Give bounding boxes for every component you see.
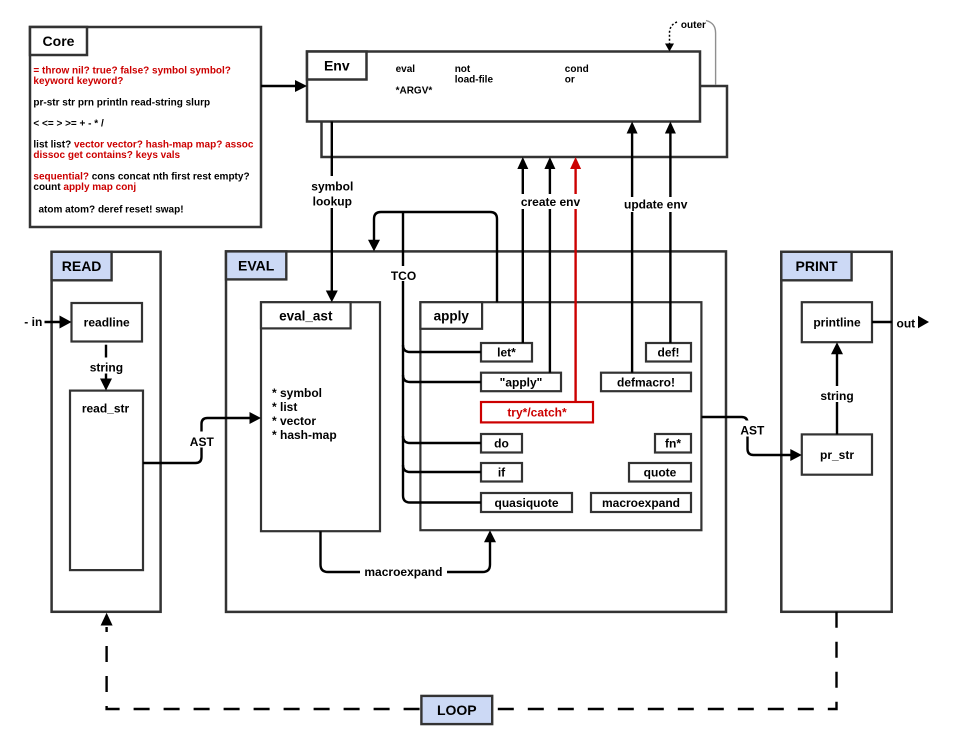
svg-text:quasiquote: quasiquote [494,496,558,510]
svg-text:symbol: symbol [311,180,353,194]
svg-text:sequential? cons concat nth fi: sequential? cons concat nth first rest e… [33,171,249,182]
svg-text:outer: outer [681,20,706,31]
svg-text:LOOP: LOOP [437,702,477,718]
svg-text:* hash-map: * hash-map [272,428,337,442]
svg-text:Env: Env [324,58,350,74]
svg-text:load-file: load-file [455,75,494,86]
svg-text:"apply": "apply" [500,375,543,389]
svg-text:EVAL: EVAL [238,257,275,273]
svg-text:keyword keyword?: keyword keyword? [33,76,123,87]
svg-text:out: out [897,316,916,330]
svg-text:atom atom? deref reset! swap!: atom atom? deref reset! swap! [39,204,184,215]
svg-text:or: or [565,75,575,86]
svg-text:PRINT: PRINT [796,258,838,274]
svg-text:= throw nil? true? false? symb: = throw nil? true? false? symbol symbol? [33,66,231,77]
svg-text:AST: AST [190,435,215,449]
svg-text:string: string [820,389,853,403]
svg-text:def!: def! [658,346,680,360]
svg-text:macroexpand: macroexpand [364,565,442,579]
svg-text:eval_ast: eval_ast [279,309,333,324]
svg-text:read_str: read_str [82,402,130,416]
svg-text:AST: AST [740,423,765,437]
svg-text:eval: eval [396,64,416,75]
svg-text:pr-str str prn println read-st: pr-str str prn println read-string slurp [33,97,210,108]
svg-text:*ARGV*: *ARGV* [396,86,433,97]
svg-text:not: not [455,64,471,75]
svg-text:update env: update env [624,198,688,212]
svg-text:TCO: TCO [391,269,416,283]
svg-text:pr_str: pr_str [820,448,854,462]
svg-text:READ: READ [62,258,102,274]
svg-text:apply: apply [434,309,470,324]
svg-text:* list: * list [272,400,297,414]
svg-text:cond: cond [565,64,589,75]
svg-text:Core: Core [43,33,75,49]
svg-text:list list? vector vector? hash: list list? vector vector? hash-map map? … [33,139,254,150]
svg-text:* symbol: * symbol [272,386,322,400]
svg-text:count apply map conj: count apply map conj [33,182,136,193]
svg-text:< <= > >= + - * /: < <= > >= + - * / [33,118,104,129]
svg-text:* vector: * vector [272,414,316,428]
svg-text:dissoc get contains? keys vals: dissoc get contains? keys vals [33,150,180,161]
svg-text:if: if [498,465,506,479]
svg-text:readline: readline [84,316,130,330]
svg-text:do: do [494,436,509,450]
svg-text:lookup: lookup [313,194,352,208]
svg-text:fn*: fn* [665,436,681,450]
svg-text:string: string [90,361,123,375]
svg-text:create env: create env [521,195,581,209]
svg-text:printline: printline [813,316,861,330]
svg-text:try*/catch*: try*/catch* [507,405,567,419]
svg-text:defmacro!: defmacro! [617,375,675,389]
svg-text:- in: - in [24,315,42,329]
svg-text:let*: let* [497,346,516,360]
svg-text:macroexpand: macroexpand [602,496,680,510]
svg-text:quote: quote [644,465,677,479]
